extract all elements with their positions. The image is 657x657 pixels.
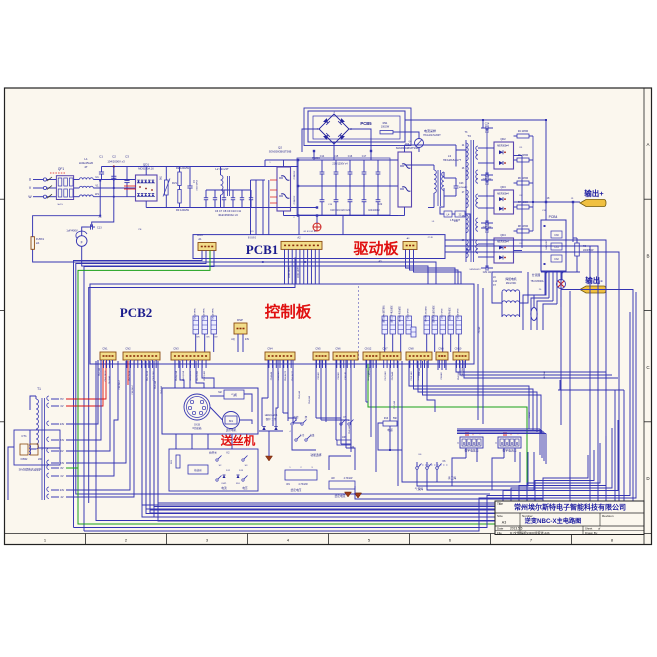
svg-text:MER300#4: MER300#4 [497, 194, 509, 196]
svg-text:CN8,1&8: CN8,1&8 [411, 371, 413, 381]
svg-text:CN3: CN3 [173, 347, 179, 351]
svg-text:L3: L3 [448, 154, 452, 158]
svg-text:F0502: F0502 [21, 458, 28, 461]
svg-text:C18 C19 C20 C21: C18 C19 C20 C21 [330, 209, 350, 212]
svg-text:R6 10/5W: R6 10/5W [518, 178, 529, 180]
svg-text:控制板: 控制板 [265, 302, 312, 321]
svg-text:MER300#4: MER300#4 [497, 146, 509, 148]
svg-text:功能选择: 功能选择 [310, 453, 321, 457]
svg-text:CN10,2&8: CN10,2&8 [462, 367, 464, 377]
svg-text:L2 12m/4T: L2 12m/4T [215, 167, 229, 171]
svg-text:R5 10/5W: R5 10/5W [518, 155, 529, 157]
svg-text:CN2,6&14: CN2,6&14 [132, 385, 134, 395]
svg-text:分流器: 分流器 [532, 273, 541, 277]
svg-text:104/1000V: 104/1000V [368, 209, 380, 212]
svg-text:28m/VDC: 28m/VDC [506, 282, 517, 285]
svg-text:3x2.5: 3x2.5 [57, 204, 63, 206]
svg-text:104/2000V x3: 104/2000V x3 [107, 160, 125, 164]
svg-text:T1: T1 [37, 387, 41, 391]
svg-text:C39MXX: C39MXX [294, 195, 296, 204]
svg-text:FU5X1: FU5X1 [36, 237, 45, 241]
svg-text:C16: C16 [348, 155, 353, 158]
svg-text:154/1200V: 154/1200V [195, 180, 197, 191]
svg-text:MER300#4: MER300#4 [497, 242, 509, 244]
svg-text:C32: C32 [554, 258, 559, 261]
svg-text:HV: HV [60, 398, 64, 401]
svg-text:CN5: CN5 [315, 347, 321, 351]
svg-text:L12: L12 [493, 280, 498, 283]
svg-text:V1: V1 [95, 184, 99, 188]
svg-text:C30: C30 [554, 234, 559, 237]
svg-text:C15: C15 [334, 155, 339, 158]
svg-text:51K: 51K [236, 483, 240, 485]
svg-text:CN1,2&3,4: CN1,2&3,4 [105, 370, 107, 381]
svg-text:R3 120/2W: R3 120/2W [176, 208, 190, 212]
svg-text:给定电压: 给定电压 [291, 488, 302, 492]
svg-text:A3: A3 [502, 521, 506, 525]
svg-text:DSP: DSP [237, 318, 243, 322]
svg-text:热送丝: 热送丝 [194, 468, 202, 472]
svg-text:Title: Title [497, 502, 503, 506]
svg-text:C14: C14 [320, 155, 325, 158]
svg-text:H31x19x7x200T: H31x19x7x200T [423, 134, 441, 137]
svg-text:CN6&8: CN6&8 [338, 372, 340, 380]
svg-text:C23: C23 [459, 182, 464, 185]
svg-text:CN4,2&8: CN4,2&8 [278, 371, 280, 381]
svg-text:B1081: B1081 [197, 235, 204, 237]
svg-text:T3: T3 [467, 134, 471, 138]
svg-text:22R/1200V x4: 22R/1200V x4 [332, 163, 348, 166]
svg-text:6芯航插: 6芯航插 [193, 426, 202, 430]
svg-text:U1: U1 [95, 175, 99, 179]
svg-text:4V: 4V [60, 496, 63, 499]
svg-text:PCB2: PCB2 [120, 305, 153, 320]
svg-text:电压: 电压 [242, 486, 248, 490]
svg-text:NBC4/8Z: NBC4/8Z [546, 240, 548, 250]
svg-text:QD3: QD3 [500, 185, 506, 189]
svg-text:CN12: CN12 [365, 347, 372, 351]
svg-text:G1 E1 G2 E2: G1 E1 G2 E2 [303, 231, 317, 233]
svg-text:CN7,4&8: CN7,4&8 [394, 400, 396, 409]
svg-text:CN14 8PIN: CN14 8PIN [213, 308, 215, 319]
svg-text:CN13 8PIN: CN13 8PIN [408, 308, 410, 319]
svg-text:CN1,3&4: CN1,3&4 [99, 367, 101, 376]
svg-text:CN2,2&10: CN2,2&10 [147, 370, 149, 381]
svg-text:Size: Size [497, 514, 503, 518]
svg-text:CN18 8PIN: CN18 8PIN [458, 308, 460, 319]
svg-text:CT1: CT1 [21, 434, 27, 438]
svg-text:R2 120/2W: R2 120/2W [176, 166, 190, 170]
svg-text:56K: 56K [393, 418, 398, 420]
svg-text:W1: W1 [95, 192, 99, 196]
svg-text:24V: 24V [60, 489, 65, 492]
svg-text:输出-: 输出- [585, 275, 603, 285]
svg-text:CN8: CN8 [408, 347, 414, 351]
svg-text:PCB5: PCB5 [360, 121, 372, 126]
svg-text:CN3,2&8: CN3,2&8 [155, 380, 157, 389]
svg-text:24V: 24V [60, 462, 65, 465]
svg-text:气保焊: 气保焊 [415, 487, 424, 491]
svg-text:0V: 0V [60, 475, 63, 478]
svg-text:Sheet: Sheet [585, 527, 593, 531]
svg-text:逆变NBC-X主电路图: 逆变NBC-X主电路图 [525, 517, 582, 525]
svg-text:SGM300GB63TS6B: SGM300GB63TS6B [396, 147, 419, 150]
svg-text:CN2: CN2 [125, 347, 131, 351]
svg-text:A2: A2 [297, 236, 301, 240]
svg-text:CN7&8: CN7&8 [479, 326, 481, 333]
svg-text:30uF/450VAC x6: 30uF/450VAC x6 [218, 213, 238, 217]
svg-text:4.7K/2W: 4.7K/2W [344, 478, 354, 480]
svg-text:驱动板: 驱动板 [353, 240, 399, 258]
svg-text:CN2,2&14: CN2,2&14 [129, 370, 131, 381]
svg-text:CN8 10PIN: CN8 10PIN [288, 266, 291, 278]
svg-text:C38MXX: C38MXX [294, 170, 296, 179]
svg-text:0V: 0V [60, 450, 63, 453]
svg-text:A: A [646, 142, 649, 147]
svg-text:CN9: CN9 [438, 347, 444, 351]
svg-text:2013.5.5: 2013.5.5 [510, 527, 523, 531]
svg-text:CN4: CN4 [267, 347, 273, 351]
svg-text:CN4,6&8: CN4,6&8 [299, 390, 301, 399]
svg-text:24V: 24V [60, 423, 65, 426]
svg-text:保护 工作: 保护 工作 [266, 417, 277, 421]
svg-text:1uF/400V: 1uF/400V [66, 229, 78, 233]
svg-text:C13: C13 [97, 227, 102, 230]
svg-text:CN17 8PIN: CN17 8PIN [442, 308, 444, 319]
svg-text:CN12,3&8: CN12,3&8 [369, 367, 371, 377]
svg-text:C24: C24 [485, 123, 490, 126]
svg-text:QF1: QF1 [58, 167, 64, 171]
svg-text:4T: 4T [84, 165, 88, 169]
svg-text:File: File [497, 531, 502, 535]
svg-text:气阀: 气阀 [231, 393, 237, 397]
svg-text:CN1: CN1 [102, 347, 108, 351]
svg-text:SGM300GB63TS6B: SGM300GB63TS6B [269, 151, 292, 154]
svg-text:常州埃尔斯特电子智能科技有限公司: 常州埃尔斯特电子智能科技有限公司 [514, 502, 626, 511]
svg-text:WS/WX BOARD: WS/WX BOARD [425, 306, 428, 322]
svg-text:CN10: CN10 [455, 347, 462, 351]
svg-text:CN10&8: CN10&8 [544, 370, 546, 378]
svg-text:561: 561 [160, 175, 163, 180]
svg-text:CN24,280: CN24,280 [190, 370, 192, 381]
svg-text:CN23,480: CN23,480 [204, 370, 206, 381]
svg-text:DW1: DW1 [222, 483, 228, 485]
svg-text:2A: 2A [36, 241, 39, 245]
svg-text:CN3A,2&8: CN3A,2&8 [175, 370, 178, 381]
svg-text:CN4,8&8: CN4,8&8 [309, 395, 311, 404]
svg-text:8 0 8 0: 8 0 8 0 [248, 236, 256, 240]
svg-text:M1: M1 [229, 419, 233, 423]
svg-text:24V: 24V [245, 338, 250, 341]
svg-text:电流采样: 电流采样 [424, 128, 436, 133]
svg-text:8V: 8V [60, 467, 63, 470]
svg-text:CN2,2&14: CN2,2&14 [119, 380, 121, 390]
svg-text:CN6,2&8: CN6,2&8 [349, 425, 351, 434]
svg-text:D:\文件\焊机\N300逆变线.ddb: D:\文件\焊机\N300逆变线.ddb [510, 530, 550, 535]
svg-text:CN24,2&8: CN24,2&8 [183, 370, 185, 381]
svg-text:C22: C22 [378, 203, 383, 206]
svg-text:100/2W: 100/2W [381, 126, 390, 129]
svg-text:QD2: QD2 [500, 137, 506, 141]
svg-text:R13: R13 [384, 418, 389, 420]
svg-text:C1: C1 [99, 155, 103, 159]
svg-text:Date: Date [497, 527, 504, 531]
svg-text:CN7: CN7 [382, 347, 388, 351]
svg-text:CN8&8: CN8&8 [529, 411, 531, 418]
svg-text:CN5&8: CN5&8 [318, 372, 320, 380]
svg-text:CN6: CN6 [335, 347, 341, 351]
svg-text:B: B [646, 253, 649, 258]
svg-text:RV1: RV1 [172, 181, 178, 185]
svg-text:R4 10/5W: R4 10/5W [518, 131, 529, 133]
svg-text:C29 112: C29 112 [483, 272, 492, 274]
svg-text:CN16 8PIN: CN16 8PIN [195, 308, 197, 319]
svg-text:给定电流: 给定电流 [335, 494, 346, 498]
svg-text:输出+: 输出+ [584, 188, 604, 198]
svg-text:电流: 电流 [221, 486, 227, 490]
svg-text:H63x28x5x4x7T: H63x28x5x4x7T [443, 159, 462, 162]
svg-text:200: 200 [38, 458, 43, 461]
svg-text:C3: C3 [125, 155, 129, 159]
svg-text:R91: R91 [383, 121, 388, 125]
svg-text:A1: A1 [198, 237, 202, 241]
svg-text:PCB4: PCB4 [549, 215, 558, 219]
svg-text:CN15 8PIN: CN15 8PIN [204, 308, 206, 319]
svg-text:of: of [598, 527, 601, 531]
svg-text:J7 J8: J7 J8 [427, 237, 433, 239]
svg-text:QD4: QD4 [500, 233, 506, 237]
svg-text:75mV/500A: 75mV/500A [530, 280, 543, 283]
svg-text:CN4,4&72: CN4,4&72 [285, 370, 287, 381]
svg-text:4.7K/2W: 4.7K/2W [298, 483, 308, 486]
svg-text:焊炬电机: 焊炬电机 [505, 277, 516, 281]
svg-text:CN7,8&8: CN7,8&8 [385, 371, 387, 381]
svg-text:CN9&8: CN9&8 [441, 372, 443, 380]
svg-text:PCB1: PCB1 [246, 242, 279, 257]
svg-text:C6 C7 C8 C9 C10 C11: C6 C7 C8 C9 C10 C11 [215, 209, 242, 213]
svg-text:送丝电机: 送丝电机 [226, 428, 237, 432]
svg-text:送丝机: 送丝机 [220, 434, 256, 448]
svg-text:SKN240/12: SKN240/12 [469, 269, 481, 271]
svg-text:C17: C17 [362, 155, 367, 158]
svg-text:Drawn By:: Drawn By: [585, 531, 598, 535]
svg-text:C2: C2 [112, 155, 116, 159]
svg-text:CN1,B&4: CN1,B&4 [109, 375, 111, 384]
svg-text:CN23,280: CN23,280 [197, 370, 199, 381]
svg-text:36V刨炬热启动保护: 36V刨炬热启动保护 [19, 468, 42, 472]
svg-text:Revision: Revision [602, 514, 614, 518]
svg-text:CN8 10PIN: CN8 10PIN [297, 266, 300, 278]
svg-text:AQ: AQ [231, 338, 235, 341]
svg-text:F: F [81, 241, 83, 245]
svg-text:0V: 0V [60, 405, 63, 408]
svg-text:枪开关: 枪开关 [209, 451, 217, 455]
svg-text:R8 10/5W: R8 10/5W [518, 226, 529, 228]
svg-text:24V: 24V [60, 439, 65, 442]
svg-text:625MAC: 625MAC [459, 186, 468, 189]
svg-text:Q2: Q2 [278, 146, 282, 150]
svg-text:CN8,3&8: CN8,3&8 [419, 367, 421, 376]
svg-text:QD1: QD1 [143, 163, 150, 167]
svg-text:CN7A&8: CN7A&8 [391, 371, 394, 380]
svg-text:CN3,4&8: CN3,4&8 [161, 385, 163, 394]
